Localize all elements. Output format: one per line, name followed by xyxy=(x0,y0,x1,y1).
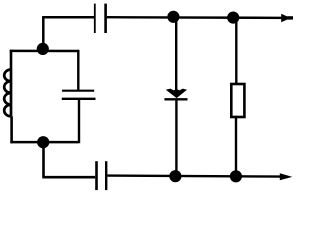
node: junction bottom of diode branch xyxy=(169,170,181,182)
wire: tank loop bottom xyxy=(10,141,78,144)
wire: diode branch lower xyxy=(175,99,177,176)
capacitor C3 (bottom series), right plate xyxy=(105,161,107,190)
wire: diode branch upper xyxy=(175,17,177,90)
node: junction bottom of resistor branch xyxy=(230,170,242,182)
wire: tank loop left upper segment xyxy=(10,50,13,70)
resistor R1 (box) xyxy=(231,84,244,117)
wire: bottom left (tank bottom node down and right to C3) xyxy=(42,142,95,177)
wire: resistor branch upper xyxy=(235,18,237,84)
wire: tank loop top xyxy=(10,50,79,53)
arrowhead: bottom output terminal xyxy=(280,173,293,180)
wire: bottom rail right (C3 to output terminal) xyxy=(107,176,283,177)
capacitor C2 (top series), left plate xyxy=(94,4,96,33)
node: junction top of diode branch xyxy=(167,11,179,23)
diode D1: cathode bar xyxy=(164,98,187,100)
wire: top rail left (tank top node up and right to C2) xyxy=(42,17,94,49)
wire: tank loop left lower segment xyxy=(10,116,13,143)
diode D1: anode triangle (pointing down) xyxy=(166,89,187,99)
node: tank bottom junction xyxy=(37,136,49,148)
wire: top rail right (C2 to output terminal) xyxy=(107,16,293,19)
arrowhead: top output terminal xyxy=(281,14,289,22)
wire: coil core line xyxy=(10,70,13,117)
capacitor C1 (tank), bottom plate xyxy=(62,98,96,100)
wire: resistor branch lower xyxy=(235,116,237,177)
wire: tank right branch upper xyxy=(77,50,79,90)
inductor L (coil, 4 left-bulging arcs) xyxy=(4,70,11,117)
node: junction top of resistor branch xyxy=(227,12,239,24)
wire: tank right branch lower xyxy=(78,99,80,143)
node: tank top junction xyxy=(37,43,49,55)
capacitor C1 (tank), top plate xyxy=(62,90,94,92)
capacitor C3 (bottom series), left plate xyxy=(95,161,98,190)
capacitor C2 (top series), right plate xyxy=(104,4,107,33)
